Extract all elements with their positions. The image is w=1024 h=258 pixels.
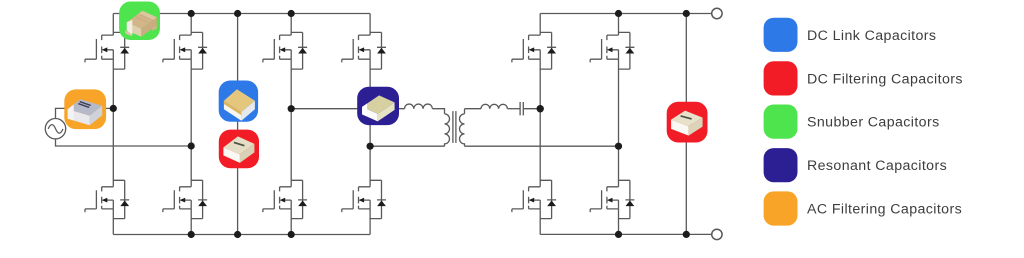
- svg-text:Snubber Capacitors: Snubber Capacitors: [807, 115, 940, 131]
- svg-text:AC Filtering Capacitors: AC Filtering Capacitors: [807, 202, 962, 218]
- svg-text:DC Link Capacitors: DC Link Capacitors: [807, 28, 936, 44]
- svg-text:Resonant Capacitors: Resonant Capacitors: [807, 158, 947, 174]
- svg-text:DC Filtering Capacitors: DC Filtering Capacitors: [807, 71, 963, 87]
